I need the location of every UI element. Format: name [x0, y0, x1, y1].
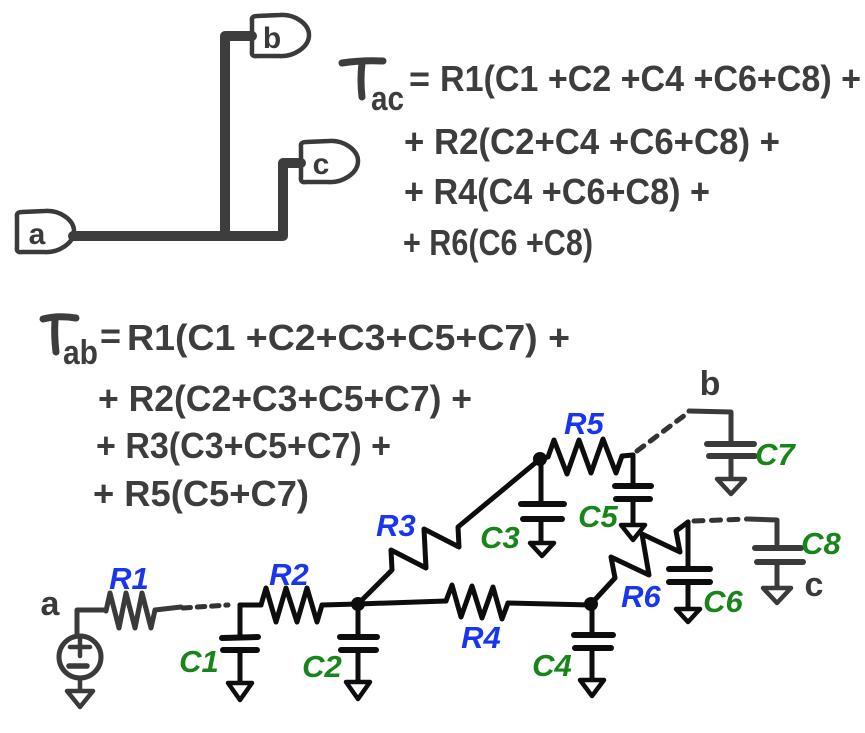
svg-text:C1: C1: [179, 644, 219, 679]
resistor R3 (diagonal): [358, 459, 540, 604]
svg-text:C7: C7: [755, 437, 796, 472]
svg-text:C8: C8: [801, 526, 841, 561]
svg-text:b: b: [263, 22, 281, 55]
svg-text:C4: C4: [532, 648, 572, 683]
ground (C5): [621, 525, 645, 540]
wire after R1: [155, 607, 181, 610]
svg-text:ac: ac: [371, 80, 404, 118]
svg-text:+ R2(C2+C3+C5+C7) +: + R2(C2+C3+C5+C7) +: [98, 378, 472, 419]
svg-text:+ R4(C4 +C6+C8) +: + R4(C4 +C6+C8) +: [404, 171, 710, 212]
svg-text:C5: C5: [578, 499, 618, 534]
resistor R1: [106, 593, 155, 628]
node 4 junction: [584, 597, 598, 611]
ground (C8): [763, 588, 791, 603]
wire node2 to R4: [358, 601, 446, 604]
svg-text:C6: C6: [703, 584, 743, 619]
capacitor C8: [755, 548, 803, 587]
resistor R5: [540, 439, 633, 474]
node 3 junction: [533, 452, 547, 466]
dashed wire to b: [637, 412, 689, 451]
wire C1 node to R2: [240, 603, 261, 608]
svg-text:R5: R5: [564, 406, 604, 441]
gate a: [17, 211, 74, 252]
ground (C2): [346, 682, 370, 699]
svg-text:c: c: [313, 148, 330, 181]
resistor R6 (diagonal): [591, 522, 688, 604]
capacitor C1: [222, 605, 258, 682]
ground (C6): [676, 609, 700, 622]
dashed wire to C1 node: [183, 605, 228, 608]
formula Tac: [342, 58, 861, 263]
svg-text:R6: R6: [621, 579, 661, 614]
gate c: [301, 141, 358, 182]
node c wire: [748, 519, 777, 544]
svg-text:C2: C2: [302, 649, 342, 684]
svg-text:=: =: [100, 315, 121, 356]
svg-text:ab: ab: [63, 334, 98, 372]
svg-text:+ R6(C6 +C8): + R6(C6 +C8): [403, 222, 593, 263]
wire branch to b: [225, 36, 252, 236]
ground (C1): [228, 683, 252, 700]
svg-text:a: a: [29, 218, 46, 251]
ground (vs): [67, 678, 93, 707]
svg-text:R3: R3: [376, 508, 416, 543]
ground (C3): [530, 543, 554, 556]
capacitor C5: [615, 455, 651, 524]
capacitor C6: [669, 522, 710, 608]
wire trunk a to branch c: [73, 163, 301, 236]
svg-text:C3: C3: [480, 520, 520, 555]
svg-text:+ R3(C3+C5+C7) +: + R3(C3+C5+C7) +: [96, 425, 391, 466]
formula Tab: [43, 315, 570, 514]
svg-text:c: c: [805, 566, 824, 604]
svg-text:R4: R4: [461, 620, 501, 655]
svg-text:+ R2(C2+C4 +C6+C8) +: + R2(C2+C4 +C6+C8) +: [404, 121, 780, 162]
capacitor C7: [707, 444, 755, 478]
wire R2 to node2: [322, 604, 358, 605]
resistor R2: [261, 588, 322, 622]
wire vs to node a: [77, 610, 106, 634]
node b wire: [689, 411, 731, 441]
ground (C7): [717, 479, 745, 494]
svg-text:R1(C1 +C2+C3+C5+C7) +: R1(C1 +C2+C3+C5+C7) +: [127, 317, 570, 358]
wire R4 to node4: [508, 603, 591, 605]
svg-text:R2: R2: [269, 557, 309, 592]
svg-text:+ R5(C5+C7): + R5(C5+C7): [93, 473, 309, 514]
svg-text:b: b: [700, 365, 721, 403]
gate b: [252, 15, 309, 56]
voltage source V1: [59, 636, 101, 678]
dashed wire to c: [694, 519, 748, 521]
capacitor C3: [521, 459, 564, 542]
svg-text:=: =: [409, 58, 430, 99]
resistor R4: [446, 585, 508, 619]
svg-text:R1(C1 +C2 +C4 +C6+C8) +: R1(C1 +C2 +C4 +C6+C8) +: [440, 58, 861, 99]
node 2 junction: [351, 597, 365, 611]
capacitor C4: [574, 605, 613, 679]
svg-text:a: a: [41, 585, 61, 623]
capacitor C2: [340, 604, 377, 681]
ground (C4): [580, 680, 604, 696]
svg-text:R1: R1: [109, 561, 149, 596]
